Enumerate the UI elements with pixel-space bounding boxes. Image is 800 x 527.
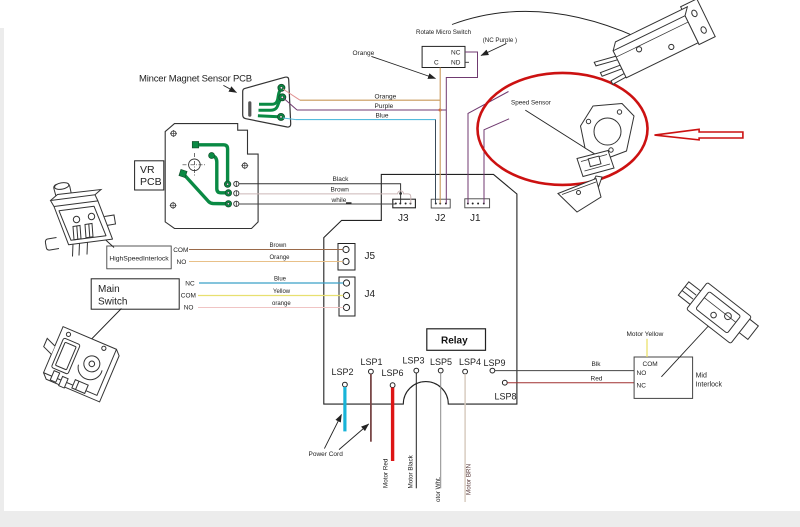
rotate micro switch (isometric drawing top right) — [589, 0, 715, 89]
svg-text:while: while — [331, 197, 347, 204]
svg-text:otor Wht.: otor Wht. — [435, 476, 442, 502]
svg-text:NC: NC — [637, 383, 647, 390]
mincer PCB pad 1 — [278, 84, 285, 91]
svg-text:Orange: Orange — [375, 94, 397, 101]
mincer PCB slot — [248, 101, 251, 116]
red arrow pointing at speed sensor — [655, 129, 743, 140]
mincer PCB pad 3 — [278, 113, 285, 120]
svg-text:J1: J1 — [470, 213, 481, 224]
svg-text:Switch: Switch — [98, 297, 127, 308]
svg-text:(NC Purple ): (NC Purple ) — [483, 37, 517, 44]
wire brown VR PCB to J3 pin4 (with hop) — [239, 187, 411, 204]
svg-text:J5: J5 — [365, 251, 376, 262]
page bottom gray bar — [0, 511, 800, 527]
LSP terminal LSP2 — [332, 367, 354, 387]
svg-text:Speed Sensor: Speed Sensor — [511, 100, 551, 107]
label power cord — [309, 415, 369, 459]
svg-text:C: C — [434, 60, 439, 67]
svg-text:NO: NO — [177, 259, 187, 266]
svg-text:orange: orange — [272, 301, 291, 307]
wire motor red at LSP6 — [391, 388, 394, 461]
page left gray strip — [0, 0, 4, 527]
VR PCB board — [165, 124, 258, 229]
connector J2 — [431, 199, 450, 224]
svg-text:ND: ND — [451, 60, 461, 67]
red highlight ellipse — [478, 73, 648, 185]
wire black VR PCB to J3 pin2 — [239, 176, 402, 204]
svg-text:Brown: Brown — [331, 187, 350, 194]
svg-text:LSP1: LSP1 — [361, 357, 383, 367]
svg-text:Rotate Micro Switch: Rotate Micro Switch — [416, 29, 472, 36]
LSP terminal LSP9 — [484, 358, 506, 373]
main switch label box — [91, 279, 179, 309]
wire purple speed sensor to J1 pin4 — [484, 119, 509, 204]
svg-text:Motor Black: Motor Black — [408, 454, 415, 488]
speed sensor (isometric drawing) — [558, 104, 634, 213]
svg-text:J4: J4 — [365, 289, 376, 300]
svg-text:COM: COM — [173, 247, 188, 254]
LSP terminal LSP6 — [382, 368, 404, 388]
svg-text:Red: Red — [591, 376, 603, 383]
wire blue to J4 pin1 — [199, 277, 343, 284]
svg-text:Blue: Blue — [274, 277, 287, 283]
svg-text:Mincer Magnet Sensor PCB: Mincer Magnet Sensor PCB — [139, 74, 252, 85]
VR PCB green trace 2 — [212, 156, 229, 193]
svg-text:Black: Black — [333, 176, 350, 183]
main control board outline — [324, 174, 517, 404]
svg-text:Interlock: Interlock — [696, 382, 723, 389]
svg-text:NO: NO — [184, 305, 194, 312]
LSP terminal LSP5 — [430, 357, 452, 373]
VR PCB mount hole right — [241, 162, 248, 169]
connector J5 — [338, 244, 376, 271]
LSP terminal LSP8 — [495, 380, 517, 401]
svg-text:Mid: Mid — [696, 373, 707, 380]
wire brown power cord at LSP1 — [370, 374, 372, 442]
svg-text:VR: VR — [140, 164, 155, 176]
svg-text:LSP8: LSP8 — [495, 392, 517, 402]
VR PCB mount hole bottom-left — [170, 202, 177, 209]
wire orange to J5 pin2 — [189, 255, 343, 262]
LSP terminal LSP4 — [459, 357, 481, 374]
mincer PCB trace B — [259, 98, 283, 110]
LSP terminal LSP3 — [403, 356, 425, 374]
svg-text:NC: NC — [451, 50, 461, 57]
svg-text:HighSpeedInterlock: HighSpeedInterlock — [109, 256, 169, 263]
svg-text:J2: J2 — [435, 213, 446, 224]
pointer speed sensor label to sensor — [525, 110, 608, 162]
svg-text:Brown: Brown — [270, 243, 287, 249]
wire motor white at LSP5 — [440, 373, 442, 488]
connector J3 — [393, 199, 416, 224]
wire cyan power cord at LSP2 — [343, 387, 346, 431]
arc pointer to rotate micro switch drawing — [452, 11, 643, 40]
svg-text:LSP2: LSP2 — [332, 367, 354, 377]
label orange with arrow — [353, 50, 436, 79]
high speed interlock switch (isometric drawing) — [45, 182, 115, 257]
svg-text:Motor Red: Motor Red — [383, 458, 390, 488]
svg-text:LSP9: LSP9 — [484, 358, 506, 368]
LSP terminal LSP1 — [361, 357, 383, 374]
svg-text:Power Cord: Power Cord — [309, 451, 344, 458]
svg-text:COM: COM — [643, 361, 658, 368]
svg-text:Purple: Purple — [375, 103, 394, 110]
wire white VR PCB to J3 pin1 — [239, 197, 396, 204]
label NC purple — [481, 37, 517, 56]
svg-text:Main: Main — [98, 284, 120, 295]
VR PCB pads — [224, 181, 231, 207]
svg-text:COM: COM — [181, 293, 196, 300]
wire purple mincer PCB to J2 — [284, 99, 446, 111]
svg-text:Blue: Blue — [376, 113, 389, 120]
relay K1 — [427, 329, 486, 351]
svg-text:LSP4: LSP4 — [459, 357, 481, 367]
connector J1 — [465, 199, 490, 224]
wire orange mincer PCB to J2 — [283, 89, 440, 101]
wire purple speed sensor to J1 pin1 — [468, 92, 509, 204]
svg-text:Motor Yellow: Motor Yellow — [627, 331, 664, 338]
VR PCB label box — [135, 161, 164, 190]
svg-text:Motor BRN: Motor BRN — [466, 463, 473, 495]
rotate micro switch box — [422, 46, 469, 67]
connector J4 — [339, 277, 376, 316]
high speed interlock label box — [107, 246, 171, 269]
mincer magnet sensor PCB label — [139, 74, 252, 93]
mincer magnet sensor PCB board — [243, 77, 291, 127]
junction dot purple over orange — [439, 109, 442, 112]
VR PCB screw terminals — [234, 181, 239, 207]
wire brown to J5 pin1 — [189, 243, 343, 250]
svg-text:Orange: Orange — [353, 50, 375, 57]
svg-text:Yellow: Yellow — [273, 289, 291, 295]
svg-text:J3: J3 — [398, 213, 409, 224]
wire orange micro switch C to J2 pin2 — [439, 68, 441, 204]
svg-text:LSP6: LSP6 — [382, 368, 404, 378]
main switch motor assembly (isometric drawing) — [32, 323, 121, 403]
svg-text:LSP5: LSP5 — [430, 357, 452, 367]
wire motor brown at LSP4 — [464, 374, 466, 502]
svg-text:Relay: Relay — [441, 336, 468, 347]
pointer main switch to motor switch drawing — [74, 309, 121, 358]
mincer PCB pad 2 — [279, 94, 286, 101]
pointer high speed interlock to switch — [88, 224, 114, 248]
svg-text:Orange: Orange — [270, 255, 291, 261]
svg-text:PCB: PCB — [140, 176, 162, 188]
wire Blk LSP9 to mid interlock NO — [495, 361, 634, 371]
mincer PCB trace A — [259, 89, 281, 105]
VR PCB mount hole top-left — [170, 130, 177, 137]
wire motor yellow to mid interlock COM — [627, 331, 664, 357]
VR PCB green trace 1 — [196, 145, 228, 184]
wire yellow to J4 pin2 — [198, 289, 343, 296]
wire light orange to J4 pin3 — [198, 301, 343, 308]
wire blue mincer PCB to J2 pin1 — [283, 113, 436, 204]
svg-text:LSP3: LSP3 — [403, 356, 425, 366]
mid interlock switch (isometric drawing bottom right) — [675, 273, 761, 350]
svg-text:NO: NO — [637, 370, 647, 377]
svg-text:Blk: Blk — [592, 361, 602, 368]
wire motor black at LSP3 — [415, 373, 417, 488]
pointer mid interlock to switch drawing — [661, 321, 713, 377]
VR potentiometer crosshair — [183, 153, 207, 177]
mincer PCB trace C — [258, 116, 281, 117]
svg-text:NC: NC — [185, 281, 195, 288]
VR PCB green trace 3 — [184, 174, 229, 204]
mid interlock box — [634, 357, 722, 398]
wire Red LSP8 to mid interlock NC — [507, 376, 634, 383]
wire purple micro switch NC to J2 pin3 — [446, 52, 477, 204]
